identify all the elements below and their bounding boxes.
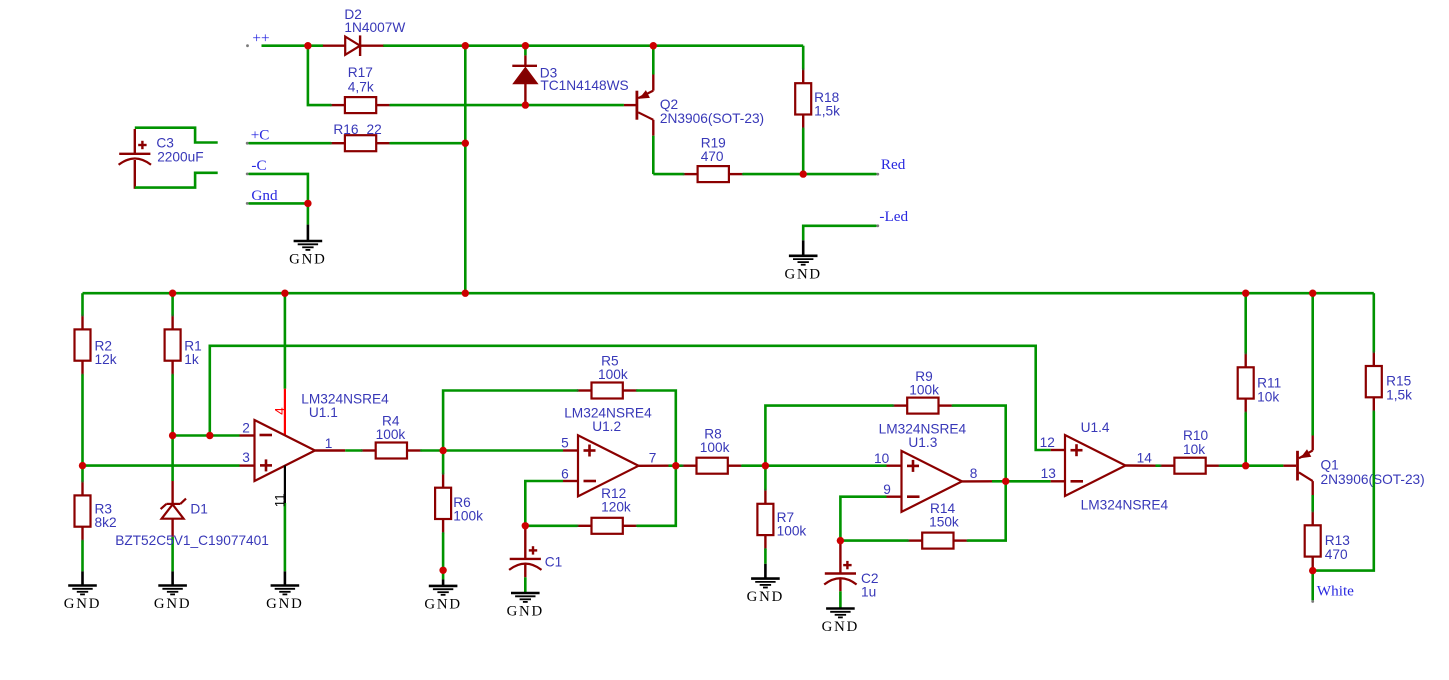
resistor R7 [757,466,773,564]
pin number 4 [273,407,288,415]
label U1.4 LM324NSRE4 [1081,420,1169,513]
svg-text:GND: GND [266,596,303,612]
svg-text:R17: R17 [348,65,373,80]
node -C port [246,157,267,175]
svg-text:2N3906(SOT-23): 2N3906(SOT-23) [660,111,764,126]
resistor R14 [840,481,1005,548]
resistor R18 [795,46,811,174]
resistor R10 [1159,458,1283,474]
label R7 100k [777,510,807,539]
capacitor C2 [824,541,856,609]
node ++ port [246,29,269,47]
resistor R16 [249,135,466,151]
wire U1.3 pin9 [840,497,901,541]
wire -C [249,174,308,204]
label R3 8k2 [95,502,117,531]
label D2 1N4007W [344,7,405,35]
svg-text:1k: 1k [184,352,199,367]
svg-text:11: 11 [272,493,287,507]
label R10 10k [1183,428,1208,457]
pin number 13 [1041,466,1057,481]
label R8 100k [700,427,730,455]
label C2 1u [861,571,879,599]
junction dots bottom [79,290,1317,575]
resistor R5 [443,383,676,466]
wire U1.2 pin6 [525,481,578,526]
pin number 9 [883,482,891,497]
junction dots top [304,42,807,207]
svg-text:-Led: -Led [879,208,908,225]
zener diode D1 [161,436,186,572]
svg-text:R16: R16 [333,122,358,137]
resistor R11 [1238,293,1254,466]
svg-text:470: 470 [1325,547,1348,562]
svg-text:White: White [1317,582,1354,599]
wire pin2 row [173,434,255,437]
svg-text:100k: 100k [700,440,730,455]
resistor R4 [361,443,444,459]
resistor R17 [330,97,392,113]
node +C port [246,127,270,145]
ground (D1) [154,571,191,612]
transistor Q2 (PNP 2N3906) [624,46,653,174]
svg-text:4: 4 [273,407,288,415]
resistor R13 [1305,510,1321,572]
svg-text:9: 9 [883,482,891,497]
svg-text:C1: C1 [545,555,563,570]
svg-text:7: 7 [649,451,657,466]
op-amp U1.3 [902,451,963,512]
resistor R2 [75,293,91,465]
label R5 100k [598,353,628,382]
ground (R6) [424,567,461,613]
diode D2 [323,35,383,56]
label Q1 2N3906(SOT-23) [1321,457,1425,487]
pin number 5 [561,436,569,451]
svg-text:+C: +C [251,127,270,144]
svg-text:GND: GND [154,596,191,612]
svg-text:U1.1: U1.1 [309,405,338,420]
svg-text:10k: 10k [1183,442,1205,457]
label D3 TC1N4148WS [540,65,629,93]
label R1 1k [184,338,202,367]
svg-text:-C: -C [251,157,266,174]
svg-text:GND: GND [64,596,101,612]
svg-text:Gnd: Gnd [251,187,278,204]
op-amp U1.1 pin 11 to ground [284,466,286,586]
pin number 1 [325,436,333,451]
op-amp U1.4 [1065,435,1126,496]
pin number 3 [242,450,250,465]
svg-text:TC1N4148WS: TC1N4148WS [540,78,628,93]
svg-text:1u: 1u [861,584,876,599]
wire U1.4 pin12 stub [1051,449,1065,451]
wire main rail 2 [83,292,1374,295]
resistor R19 [653,166,876,182]
capacitor C3 [119,128,218,189]
wire pin3 row [83,464,255,467]
svg-text:2: 2 [242,420,250,435]
op-amp U1.1 power pin 4 [284,293,287,436]
pin number 14 [1137,451,1153,466]
wire Gnd [249,203,308,224]
svg-text:U1.4: U1.4 [1081,420,1110,435]
resistor R3 [75,466,91,572]
svg-text:GND: GND [424,597,461,613]
svg-text:U1.2: U1.2 [592,419,621,434]
svg-text:10k: 10k [1257,389,1279,404]
svg-text:R10: R10 [1183,428,1208,443]
svg-text:100k: 100k [909,383,939,398]
svg-text:GND: GND [507,604,544,620]
pin number 10 [874,451,890,466]
svg-text:Red: Red [881,156,906,173]
svg-text:1,5k: 1,5k [1386,388,1412,403]
label R16 22 [333,122,381,137]
node Gnd port [246,187,278,205]
label R13 470 [1325,533,1350,562]
pin number 7 [649,451,657,466]
wire feedback U1.4 to U1.1 [210,346,1051,450]
svg-text:13: 13 [1041,466,1057,481]
ground (C1) [507,593,544,620]
label R11 10k [1257,375,1281,404]
resistor R9 [765,398,1005,482]
svg-text:U1.3: U1.3 [908,435,937,450]
svg-text:8k2: 8k2 [95,515,117,530]
op-amp U1.1 [255,420,316,481]
svg-text:R13: R13 [1325,533,1350,548]
svg-text:GND: GND [822,619,859,635]
svg-text:150k: 150k [929,515,959,530]
svg-text:14: 14 [1137,451,1153,466]
label C1 [545,555,563,570]
svg-text:5: 5 [561,436,569,451]
label R6 100k [453,495,483,524]
resistor R12 [525,466,676,534]
ground (Gnd port) [289,225,326,268]
ground (R3) [64,571,101,612]
label R15 1,5k [1386,373,1412,402]
svg-text:R15: R15 [1386,373,1411,388]
wire R4 junction to U1.2 pin5 [443,449,578,452]
op-amp U1.2 [578,435,639,496]
pin number 6 [561,467,569,482]
svg-text:1,5k: 1,5k [814,104,840,119]
svg-text:470: 470 [701,149,724,164]
label R14 150k [929,501,959,530]
svg-text:1: 1 [325,436,333,451]
diode D3 [512,46,537,105]
svg-text:2200uF: 2200uF [157,150,203,165]
capacitor C1 [509,526,541,593]
label D1 BZT52C5V1_C19077401 [115,502,269,549]
svg-text:100k: 100k [777,524,807,539]
label U1.2 LM324NSRE4 [564,406,652,435]
svg-text:GND: GND [784,266,821,282]
resistor R15 [1313,293,1382,570]
resistor R6 [435,451,451,580]
pin number 12 [1040,435,1055,450]
wire ++ rail top [262,44,804,47]
pin number 11 [272,493,287,507]
svg-text:4,7k: 4,7k [348,80,374,95]
label R12 120k [601,486,631,515]
svg-text:6: 6 [561,467,569,482]
label R2 12k [95,338,117,367]
label Q2 2N3906(SOT-23) [660,97,764,126]
ground (-Led) [784,240,821,282]
node White port [1311,582,1354,603]
pin number 8 [970,466,978,481]
label U1.3 LM324NSRE4 [879,422,967,451]
resistor R1 [165,293,181,435]
svg-text:100k: 100k [598,367,628,382]
svg-text:12k: 12k [95,352,117,367]
wire ++ branch down to R17 [308,46,331,105]
ground (R7) [747,564,784,605]
label R17 4,7k [348,65,374,95]
svg-text:GND: GND [747,589,784,605]
svg-text:22: 22 [367,122,382,137]
wire U1.4 output [1126,464,1161,467]
svg-text:10: 10 [874,451,890,466]
wire U1.3 output [962,480,1006,483]
label C3 2200uF [156,136,203,165]
label U1.1 LM324NSRE4 [301,391,389,420]
svg-text:C3: C3 [156,136,174,151]
pin number 2 [242,420,250,435]
node -Led port [876,208,908,227]
wire R17 to Q2 base [390,104,624,107]
ground (U1.1 pin 11) [266,586,303,613]
wire vertical bus x465 [464,46,467,294]
label R19 470 [701,135,726,164]
wire White [1311,571,1314,601]
wire U1.2 output [639,465,683,467]
svg-text:100k: 100k [376,427,406,442]
op-amp U1.1 output pin 1 [315,449,362,451]
svg-text:8: 8 [970,466,978,481]
ground (C2) [822,609,859,636]
svg-text:3: 3 [242,450,250,465]
node Red port [876,156,905,175]
wire U1.3 pin10 [765,464,901,467]
svg-text:120k: 120k [601,499,631,514]
label R18 1,5k [814,90,840,119]
resistor R8 [681,458,765,474]
svg-text:Q1: Q1 [1321,457,1339,472]
label R4 100k [376,414,406,443]
svg-text:R11: R11 [1257,375,1281,390]
svg-text:Q2: Q2 [660,97,678,112]
label R9 100k [909,369,939,398]
svg-text:100k: 100k [453,509,483,524]
wire U1.3 out to U1.4 pin13 [1006,480,1065,483]
svg-text:12: 12 [1040,435,1055,450]
svg-text:LM324NSRE4: LM324NSRE4 [1081,498,1169,513]
transistor Q1 (PNP 2N3906) [1283,293,1312,511]
wire -Led [803,226,876,241]
svg-text:BZT52C5V1_C19077401: BZT52C5V1_C19077401 [115,533,269,548]
svg-text:++: ++ [252,29,269,46]
svg-text:GND: GND [289,252,326,268]
svg-text:1N4007W: 1N4007W [344,20,405,35]
svg-text:D1: D1 [190,502,208,517]
